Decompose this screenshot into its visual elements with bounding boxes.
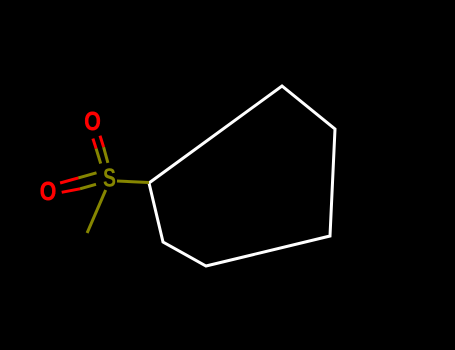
cyclohexane ring (white carbon skeleton)	[149, 86, 335, 266]
double bond S=O (top), line 1 red part	[93, 139, 96, 149]
svg-text:O: O	[40, 178, 57, 206]
double bond S=O (left), line 1 red part	[60, 178, 78, 183]
double bond S=O (left), line 2 red part	[62, 189, 80, 193]
svg-text:O: O	[84, 108, 101, 136]
bond S to ring C1	[117, 181, 149, 183]
svg-text:S: S	[103, 165, 116, 193]
double bond S=O (left), line 2 olive part	[80, 184, 96, 189]
double bond S=O (top), line 2 red part	[100, 136, 104, 147]
double bond S=O (top), line 1 olive part	[96, 149, 101, 164]
bond S-CH3 (methyl)	[87, 190, 106, 233]
double bond S=O (top), line 2 olive part	[104, 147, 108, 163]
double bond S=O (left), line 1 olive part	[78, 173, 96, 178]
